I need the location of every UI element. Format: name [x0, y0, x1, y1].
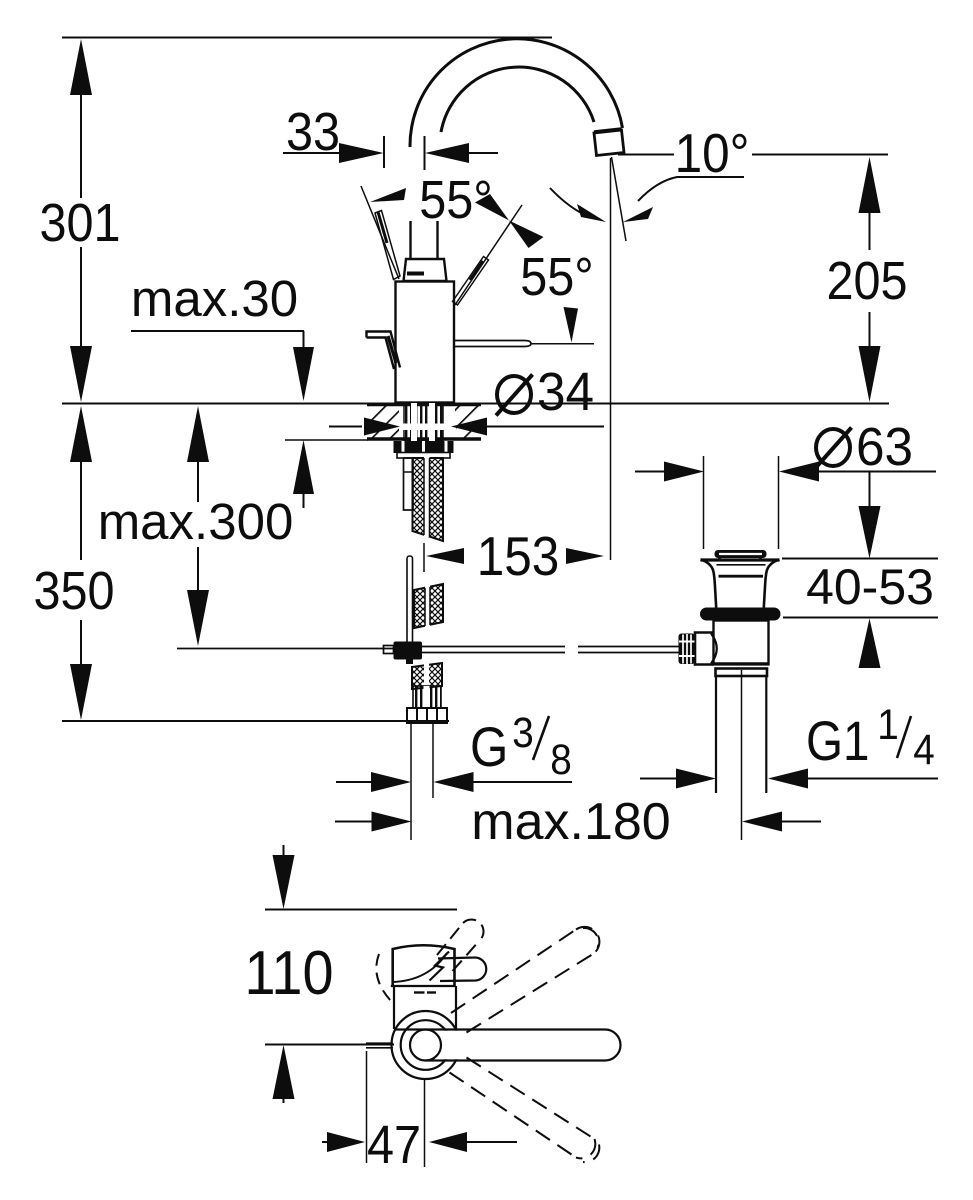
- horizontal pop-up rod reference: [177, 648, 394, 650]
- dashed long lever down: [450, 1058, 600, 1163]
- svg-text:10°: 10°: [675, 124, 750, 185]
- water flow direction line (10 deg): [612, 157, 627, 241]
- lever upright lines: [409, 221, 411, 258]
- plumb extension line from spout tip: [610, 158, 612, 560]
- dimension 153: [426, 548, 464, 564]
- drain body step: [716, 669, 768, 677]
- svg-text:G: G: [470, 716, 508, 779]
- drain valve body: [714, 621, 769, 665]
- hose extension lines: [410, 723, 412, 840]
- left lever (55 deg position): [361, 186, 399, 279]
- escutcheon middle circle: [401, 1020, 451, 1070]
- right lever (55 deg position): [455, 205, 522, 305]
- dimension O34: [329, 426, 362, 428]
- pop-up knob at rear: [367, 332, 401, 368]
- flange inner lines: [717, 564, 766, 566]
- dashed long lever up: [451, 927, 599, 1033]
- body top view: [393, 986, 395, 1029]
- dimension max.30 leader and arrows: [131, 330, 304, 332]
- dimension 205 vertical line: [869, 212, 871, 250]
- dimension line O34 crossing band: [399, 424, 456, 431]
- svg-text:40-53: 40-53: [806, 559, 934, 615]
- dimension 350 vertical line: [80, 460, 82, 560]
- label O63: [816, 429, 850, 466]
- svg-text:110: 110: [245, 939, 334, 1007]
- deck thin bottom line left: [285, 439, 368, 441]
- dimension max.300 vertical line: [197, 460, 199, 502]
- svg-text:1: 1: [877, 700, 899, 748]
- mounting nut below deck: [394, 441, 454, 453]
- dimension G3/8: [336, 781, 372, 783]
- cap break zigzag: [430, 952, 450, 981]
- dimension max.180: [335, 821, 372, 823]
- deck thick edges: [367, 403, 481, 407]
- escutcheon outer circle: [392, 1011, 460, 1079]
- dimension 110 upper: [283, 845, 285, 856]
- svg-text:350: 350: [33, 560, 114, 621]
- drain flange cap: [715, 550, 767, 558]
- lower reference line: [265, 1044, 394, 1046]
- lever erase band: [441, 1031, 605, 1060]
- svg-text:63: 63: [856, 417, 913, 477]
- svg-text:8: 8: [550, 735, 572, 783]
- svg-text:3: 3: [512, 708, 534, 756]
- svg-text:205: 205: [826, 250, 907, 311]
- svg-text:G1: G1: [806, 710, 869, 772]
- cap top view: [393, 945, 455, 986]
- dimension O63: [635, 471, 668, 473]
- stub handle solid: [438, 957, 486, 981]
- top reference line: [265, 909, 457, 911]
- mounting stud plate: [404, 458, 414, 510]
- solid lever capsule: [426, 1030, 621, 1061]
- hose centerline: [423, 543, 425, 572]
- spout inner arc: [441, 67, 594, 132]
- 55 deg (2) arrowhead: [564, 307, 579, 343]
- svg-text:55°: 55°: [520, 246, 593, 307]
- svg-text:max.300: max.300: [98, 493, 294, 550]
- deck hatch right: [455, 404, 481, 439]
- 10 deg angle arc right: [638, 177, 744, 201]
- spout outer arc: [410, 39, 623, 147]
- 10 deg leader line: [618, 154, 674, 156]
- 10 deg angle arc left: [550, 188, 583, 214]
- svg-text:153: 153: [477, 527, 560, 588]
- pop-up vertical rod: [407, 556, 413, 659]
- threaded shank in deck hole: [404, 403, 443, 441]
- pop-up rod top view: [366, 1042, 393, 1044]
- logo dashes: [414, 991, 425, 993]
- side lever horizontal (closed): [455, 341, 531, 347]
- middle flex hose: [414, 584, 443, 628]
- horizontal rod double line: [422, 646, 565, 648]
- svg-text:47: 47: [367, 1114, 421, 1175]
- dimension 40-53: [869, 472, 871, 509]
- nut flange: [397, 453, 450, 459]
- 40-53 reference lines: [782, 558, 938, 560]
- dashed arc left of cap: [376, 954, 391, 1001]
- drain tailpipe: [715, 676, 717, 793]
- bottom reference line 350: [62, 720, 449, 722]
- deck hatch left: [368, 404, 399, 439]
- svg-text:max.180: max.180: [471, 793, 670, 851]
- drain flange right shoulder: [764, 560, 780, 608]
- drain extension lines O63: [703, 456, 705, 549]
- stem dome: [711, 634, 717, 664]
- knob stem: [695, 633, 714, 665]
- drain flange top edge: [701, 558, 780, 561]
- lever cap trapezoid: [404, 259, 447, 281]
- svg-text:301: 301: [39, 192, 120, 253]
- cap dome arc: [392, 953, 447, 982]
- svg-text:4: 4: [913, 725, 935, 773]
- spout tip aerator block: [594, 130, 624, 156]
- 55 deg (1) bowtie arrows: [475, 194, 509, 221]
- dimension G1 1/4: [640, 778, 676, 780]
- hose nut: [407, 708, 447, 723]
- dashed stub lever up position: [437, 919, 484, 971]
- svg-text:max.30: max.30: [131, 270, 298, 327]
- 55 deg (1) left arrowhead: [370, 188, 406, 202]
- lower flex hose: [412, 663, 442, 689]
- hose threaded end: [413, 686, 441, 708]
- upper flex hose: [413, 458, 444, 541]
- deck surface reference line: [62, 403, 889, 405]
- label O34: [497, 376, 531, 413]
- dimension 33: [283, 152, 340, 154]
- top reference line (spout top level): [62, 37, 552, 39]
- drain knurled knob: [679, 634, 696, 665]
- drain flange left shoulder: [701, 560, 717, 608]
- svg-text:34: 34: [537, 362, 594, 422]
- svg-text:33: 33: [286, 101, 340, 162]
- body bottom edge / lever top extension: [394, 1028, 426, 1030]
- faucet body: [396, 282, 455, 403]
- dimension 110 lower: [273, 1045, 295, 1099]
- drain o-ring: [700, 608, 781, 621]
- dimension 47 extension lines: [366, 1051, 368, 1163]
- lever inner cap circle: [410, 1030, 441, 1061]
- dimension 301 vertical line: [80, 95, 82, 198]
- tailpipe centerline: [741, 670, 743, 840]
- rod clamp: [394, 642, 423, 660]
- dimension 47: [322, 1141, 331, 1143]
